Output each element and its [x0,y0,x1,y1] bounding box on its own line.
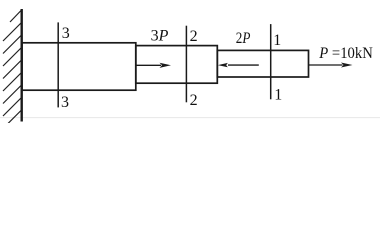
section line 3-3 [57,22,59,107]
svg-text:1: 1 [273,32,281,49]
svg-text:3: 3 [62,25,70,42]
svg-text:1: 1 [274,87,282,104]
bar segment 2 (middle) [136,46,218,84]
bar segment 1 (smallest) [217,50,308,77]
faint scan shadow line [0,117,380,119]
svg-text:3P: 3P [151,27,169,44]
force arrow 2P [218,63,259,67]
force arrow 3P [136,63,171,68]
svg-text:2P: 2P [236,30,251,47]
force arrow P at free end [309,63,353,68]
wall hatching [3,10,22,124]
section line 1-1 [270,24,272,99]
svg-text:P =10kN: P =10kN [318,45,373,62]
svg-text:3: 3 [61,94,69,111]
section line 2-2 [185,26,187,103]
svg-text:2: 2 [190,28,198,45]
bar segment 3 (largest) [22,43,136,90]
svg-text:2: 2 [190,92,198,109]
wall line [21,9,23,122]
